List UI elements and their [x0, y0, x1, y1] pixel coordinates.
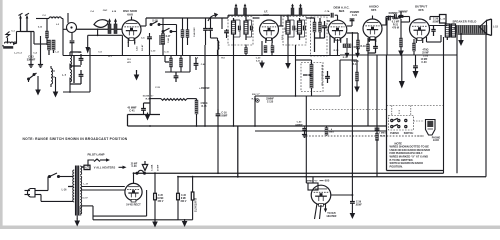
wire bottom connector [178, 219, 193, 221]
transformer lamination ticks [79, 206, 82, 208]
detector coil L-3 [70, 56, 72, 68]
padder capacitor C-6 [79, 58, 84, 60]
RF coupling socket [67, 23, 77, 33]
wire [149, 55, 151, 115]
ground [134, 73, 140, 81]
wire [346, 38, 348, 44]
wire to 6B6 grid [327, 20, 330, 22]
svg-text:NOTE: RANGE SWITCH SHOWN IN B: NOTE: RANGE SWITCH SHOWN IN BROADCAST PO… [23, 137, 128, 141]
svg-text:20 MF: 20 MF [158, 164, 160, 171]
eye coupling box [308, 183, 318, 190]
wire [351, 177, 353, 202]
eye heater arrow [325, 204, 327, 209]
ground [302, 130, 307, 138]
wire [121, 35, 123, 55]
tuning capacitor C-1 [20, 17, 22, 32]
band switch S-1B [150, 21, 160, 25]
resistor R-2 [170, 58, 173, 67]
svg-text:V ALL HEATERS: V ALL HEATERS [94, 166, 116, 170]
wire rectifier filament top [82, 186, 125, 188]
wire B+ top [63, 55, 340, 57]
wire B+ rail B [178, 176, 486, 178]
wire plate coupling [382, 24, 387, 26]
wire [62, 19, 64, 56]
resistor R-5 [245, 48, 248, 54]
capacitor C-21 [350, 18, 355, 20]
svg-text:R-13: R-13 [334, 50, 340, 52]
right section border left [386, 55, 388, 171]
phono jack [426, 120, 436, 136]
heater arrow [119, 166, 123, 168]
wire [70, 65, 81, 67]
wire HV bottom lead [82, 205, 93, 207]
padder capacitor C-8 [79, 74, 84, 76]
band switch S-1C [162, 28, 172, 32]
svg-text:470 M: 470 M [392, 26, 399, 29]
resistor R-23 [400, 38, 403, 47]
power switch [47, 177, 49, 191]
ground [398, 49, 404, 57]
wire [351, 32, 353, 177]
svg-text:C-34A: C-34A [150, 164, 153, 171]
wire antenna to tuning [7, 41, 9, 44]
power transformer core [76, 166, 79, 216]
capacitor C-26 [431, 29, 435, 31]
IF2 secondary cap [300, 19, 305, 21]
wire 6F6 grid [400, 22, 402, 30]
ground [145, 113, 151, 121]
capacitor C-40 [302, 128, 306, 130]
ground [355, 51, 360, 58]
ground [38, 60, 43, 68]
junction dots rails [154, 172, 156, 174]
wire filter feed [237, 126, 239, 177]
wire [217, 40, 219, 109]
wire plate to IF1 [141, 25, 146, 27]
svg-text:PHONO: PHONO [390, 132, 399, 135]
wire plate top [430, 16, 440, 18]
wire eye feed [305, 96, 307, 183]
coil core [72, 56, 74, 83]
wire dashed to jack [417, 135, 424, 137]
svg-text:L-7: L-7 [62, 74, 66, 77]
resistor R-7 [271, 46, 274, 53]
wire [191, 119, 219, 121]
svg-text:450 V: 450 V [158, 200, 164, 203]
power transformer secondary HV [80, 188, 81, 214]
wire [376, 55, 378, 96]
svg-text:R-19: R-19 [361, 46, 367, 48]
svg-text:R-15: R-15 [202, 106, 208, 108]
trimmer C-4 [114, 18, 117, 33]
svg-text:.01MF: .01MF [432, 21, 439, 24]
svg-text:15,000 “C”: 15,000 “C” [142, 96, 153, 98]
capacitor C-30 [413, 65, 418, 67]
wire [89, 48, 91, 92]
oscillator trimmer C-46 [186, 30, 189, 38]
wire trap drop [97, 29, 99, 36]
trimmer C-3 [108, 18, 111, 33]
wire [33, 32, 35, 45]
wire grid stub [372, 16, 374, 20]
oscillator coil L-5 [51, 69, 53, 84]
wire [311, 60, 313, 64]
wire 6F6 plate [430, 25, 447, 27]
wire [311, 17, 315, 19]
wire audio grid [339, 60, 341, 96]
wire junction [237, 176, 239, 178]
wire avc [329, 35, 331, 55]
wire IF2 to diode [306, 17, 311, 19]
wire junction [63, 91, 90, 93]
oscillator padder C-44 [161, 34, 164, 45]
padder C-5 [147, 36, 152, 38]
wire [189, 55, 191, 72]
wire [254, 96, 256, 126]
resistor R-12 [313, 22, 316, 32]
phono switch pole 2 [391, 124, 407, 127]
svg-text:C-39: C-39 [356, 202, 362, 204]
wire dashed to switch [391, 106, 393, 116]
wire det [255, 95, 340, 97]
svg-text:6B6: 6B6 [339, 9, 345, 13]
wire [245, 45, 247, 56]
resistor R-1 [46, 31, 49, 38]
svg-text:4 MEG: 4 MEG [200, 102, 207, 105]
IF1 primary coil [232, 21, 236, 34]
svg-text:10,000Ω R-30: 10,000Ω R-30 [196, 197, 198, 212]
pilot lamp wiring [88, 160, 94, 167]
wire RF section [46, 18, 48, 31]
wire B+ rail [128, 125, 387, 127]
heater bypass arrow [142, 161, 147, 171]
wire rectifier filament bottom [82, 189, 125, 191]
svg-text:25MMF: 25MMF [266, 99, 274, 101]
svg-text:C-21: C-21 [352, 14, 358, 17]
wire [159, 35, 161, 45]
wire 6B6 plate [347, 25, 352, 27]
wire screen [426, 37, 428, 42]
svg-text:R-22: R-22 [380, 135, 386, 137]
right section border bottom [387, 170, 444, 172]
ground [345, 51, 350, 58]
IF transformer 2 shield [283, 17, 306, 46]
wire avc drop [87, 35, 89, 47]
tube V2 6K7 [260, 20, 279, 43]
svg-text:.05MF: .05MF [221, 114, 228, 117]
output transformer core [449, 24, 451, 38]
svg-text:6-17: 6-17 [166, 35, 171, 38]
output transformer label [440, 15, 447, 24]
ground [458, 38, 464, 46]
svg-text:VOL CONTROL R-18: VOL CONTROL R-18 [322, 64, 324, 86]
svg-text:6F5: 6F5 [371, 8, 377, 12]
junction dots [149, 125, 151, 127]
wire eye plate [331, 194, 353, 196]
capacitor C-20 [322, 25, 327, 27]
svg-text:PHONO: PHONO [432, 137, 441, 139]
padder capacitor C-47 [203, 28, 208, 30]
svg-text:JACK: JACK [433, 139, 440, 142]
tuning capacitor C-2 [26, 17, 28, 32]
connector [256, 99, 259, 102]
grid stub [131, 17, 133, 21]
wire [159, 24, 177, 26]
wire grid line [63, 28, 67, 30]
ground [28, 60, 33, 68]
resistor R-22 [376, 133, 379, 141]
svg-text:S-1B: S-1B [152, 20, 158, 23]
wire [48, 50, 50, 55]
speaker cone [480, 21, 487, 35]
wire socket bottom [71, 33, 73, 41]
svg-text:6A8: 6A8 [127, 13, 133, 17]
wire [159, 95, 161, 115]
wire heater bus [82, 166, 84, 168]
tube V4 6F5 [363, 19, 382, 42]
wire trimmer bus [88, 34, 123, 36]
svg-text:L-16: L-16 [62, 190, 67, 192]
wire [176, 25, 178, 56]
oscillator coil L-12 [218, 41, 219, 50]
cathode network R-19 [367, 44, 370, 51]
svg-text:.01MF: .01MF [355, 204, 362, 206]
resistor R-6 [264, 46, 267, 53]
tube V3 6B6 [328, 20, 347, 43]
ground [182, 219, 188, 227]
svg-text:L-13: L-13 [441, 18, 446, 20]
power transformer secondary rectifier [80, 176, 81, 190]
wire avc rail [255, 130, 387, 132]
antenna [6, 32, 10, 38]
svg-text:6F6: 6F6 [418, 8, 424, 12]
svg-text:1 MEG: 1 MEG [379, 133, 386, 135]
trimmer C-9 [235, 4, 238, 16]
wire [127, 115, 129, 127]
detector filter shield [311, 17, 328, 56]
tube V1 6A8 [122, 20, 141, 43]
wire screen [271, 43, 273, 56]
svg-text:350MMF: 350MMF [398, 10, 408, 13]
resistor R-25 [325, 128, 328, 136]
capacitor C-7 [70, 40, 75, 42]
wire center tap [93, 215, 147, 217]
wire [398, 16, 410, 18]
capacitor C-50 [224, 30, 229, 32]
IF2 secondary coil [298, 21, 302, 34]
filter capacitor C-36 [177, 177, 179, 194]
ground [350, 211, 356, 219]
wire [144, 102, 151, 104]
ground [354, 85, 360, 93]
antenna coil L-1 [5, 42, 17, 44]
IF2 primary coil [286, 21, 290, 34]
wire heater lead [82, 166, 84, 168]
capacitor C-7A [330, 13, 332, 18]
svg-text:L-15: L-15 [493, 26, 498, 28]
svg-text:HEATER: HEATER [327, 215, 337, 218]
wire 6F5 grid feed [356, 60, 358, 72]
power transformer primary L-16 [73, 170, 74, 202]
power transformer secondary heater [80, 166, 81, 175]
tube V6 5Y4G rectifier [125, 183, 142, 202]
cathode bypass arrow [401, 55, 403, 81]
svg-text:300 V: 300 V [181, 201, 187, 203]
range switch S-1A [28, 73, 37, 80]
eye tube legs [315, 204, 318, 220]
output transformer primary [445, 24, 449, 37]
cathode resistor R-24 [413, 43, 416, 51]
svg-text:C-15: C-15 [155, 87, 161, 89]
IF1 primary cap [238, 26, 240, 31]
wire [446, 25, 447, 27]
IF1 secondary coil [244, 21, 248, 34]
ground [35, 88, 41, 96]
trimmer C-18 [291, 4, 294, 16]
wire dashed right [387, 105, 444, 107]
svg-text:C-40: C-40 [297, 121, 303, 124]
capacitor C-14 [174, 75, 179, 77]
tube V7 6U5 [311, 185, 331, 206]
resistor R-15 [195, 100, 198, 114]
svg-text:5Y4G RECT: 5Y4G RECT [126, 203, 141, 207]
tube V5 6F6 [410, 19, 430, 43]
wire B+ speaker [485, 34, 487, 177]
wire detector [295, 45, 297, 96]
volume control shield [301, 63, 323, 92]
svg-text:C-35: C-35 [158, 195, 164, 197]
wire plug bottom [40, 195, 42, 202]
resistor R-13 [319, 22, 322, 32]
ground [53, 90, 59, 98]
svg-text:WIRES “X”: WIRES “X” [306, 181, 317, 183]
trimmer C-19 [299, 4, 302, 16]
wire B+ rail A [134, 172, 444, 174]
resistor R-11 [343, 44, 351, 48]
capacitor C-25 [373, 46, 378, 48]
svg-text:C-30: C-30 [421, 61, 427, 64]
svg-text:R-2 47: R-2 47 [141, 44, 144, 51]
svg-text:MEG: MEG [329, 132, 334, 134]
resistor R-30 [192, 177, 194, 192]
capacitor 400MMF [394, 14, 396, 19]
svg-text:C-41: C-41 [129, 110, 135, 113]
wire [335, 14, 338, 16]
wire IF1 to 6K7 [245, 15, 247, 19]
wire [302, 75, 304, 92]
phono switch box [389, 116, 414, 131]
svg-text:16 MF: 16 MF [157, 198, 164, 200]
heater label [84, 165, 90, 169]
AC plug [25, 189, 49, 198]
resistor R-20 [356, 72, 359, 81]
volume control R-18 [310, 64, 313, 88]
oscillator trimmer C-45 [181, 30, 184, 38]
svg-text:OSC: OSC [103, 10, 108, 12]
grid capacitor C-27 [399, 15, 404, 17]
trimmer C-11 [244, 4, 247, 16]
wire phono dashed [306, 135, 424, 137]
svg-text:C-135: C-135 [267, 101, 274, 103]
svg-text:C-7A: C-7A [325, 10, 330, 13]
capacitor C-17 [325, 76, 330, 78]
svg-text:R-17: R-17 [252, 98, 258, 100]
filter capacitor C-35 [154, 173, 156, 193]
IF transformer 1 shield [228, 17, 253, 46]
wire [312, 177, 314, 183]
scan edge left [0, 0, 3, 229]
wire [70, 51, 81, 53]
wire 6B6 cathode [337, 39, 339, 55]
wire [164, 55, 166, 62]
wire IF2 bottom [287, 40, 289, 55]
wire rectifier plate [133, 173, 135, 183]
svg-text:SWITCH: SWITCH [404, 132, 414, 135]
phono switch pole 1 [391, 118, 407, 121]
ground [259, 61, 265, 69]
wire field to B+ [456, 35, 458, 173]
capacitor C-23 [388, 16, 390, 21]
svg-text:L-17: L-17 [84, 183, 89, 185]
coupling wire [386, 16, 394, 18]
svg-text:25 MF: 25 MF [131, 163, 138, 165]
IF2 primary cap [288, 19, 294, 21]
wire screens [204, 45, 206, 126]
oscillator coil L-7 [70, 70, 72, 82]
svg-text:6.3 V: 6.3 V [83, 198, 89, 200]
padder capacitor C-49 [208, 28, 213, 30]
wire IF1 bottom [233, 40, 235, 126]
wire [392, 17, 401, 19]
wire dashed avc [310, 109, 387, 111]
wire pins [127, 42, 129, 47]
resistor R-17 [357, 40, 360, 49]
ground [74, 219, 80, 227]
capacitor C-32 [375, 127, 380, 129]
wire [221, 18, 223, 29]
capacitor C-48 [194, 63, 199, 65]
output transformer secondary [452, 24, 456, 37]
wire [386, 25, 388, 55]
fuse link [136, 170, 145, 174]
svg-text:POSITION.: POSITION. [390, 164, 403, 168]
svg-text:6K7: 6K7 [263, 13, 269, 17]
wire jog [354, 46, 358, 48]
wire plate [279, 25, 284, 27]
speaker field coil L-14 [456, 25, 487, 34]
svg-text:6U5: 6U5 [325, 179, 330, 183]
wire output B+ [443, 37, 445, 173]
ground [152, 220, 158, 228]
RF choke coil [49, 17, 61, 19]
ground [285, 61, 291, 69]
wave trap [94, 20, 108, 28]
antenna coil bank [47, 40, 50, 50]
svg-text:L-2 C-3: L-2 C-3 [14, 53, 22, 55]
svg-text:44MMF: 44MMF [295, 123, 303, 126]
svg-text:PILOT-LAMP: PILOT-LAMP [88, 152, 105, 156]
wire [69, 78, 71, 85]
capacitor C-39 [350, 201, 355, 203]
svg-text:SPEAKER FIELD: SPEAKER FIELD [452, 19, 476, 23]
svg-text:C-46 OSC: C-46 OSC [193, 27, 196, 37]
resistor R-4 [180, 58, 183, 67]
wire tuning bus [21, 31, 35, 33]
wire cathode [261, 41, 263, 55]
tuning arrow [208, 15, 216, 21]
svg-text:C-38: C-38 [132, 166, 138, 168]
IF1 secondary cap [246, 19, 252, 21]
